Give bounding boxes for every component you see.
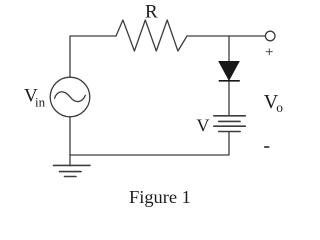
wire diode to battery: [228, 81, 230, 116]
resistor R: [116, 20, 187, 51]
wire from source top to resistor: [70, 36, 116, 77]
sine wave inside source: [55, 92, 86, 102]
svg-text:+: +: [265, 44, 273, 60]
battery V plates: [214, 116, 246, 132]
diode: [219, 62, 240, 81]
wire source bottom to ground: [69, 117, 71, 166]
svg-text:V: V: [197, 115, 210, 135]
label -: [264, 146, 269, 148]
svg-text:o: o: [276, 100, 283, 115]
output terminal circle: [265, 31, 275, 41]
node junction at diode top: [228, 36, 230, 62]
wire from resistor to output terminal: [187, 35, 265, 37]
ground: [54, 165, 91, 176]
wire battery to bottom rail: [70, 132, 229, 156]
source V_in circle: [50, 77, 90, 117]
svg-text:Figure 1: Figure 1: [129, 187, 191, 207]
svg-text:in: in: [35, 94, 46, 109]
svg-text:R: R: [145, 1, 158, 22]
